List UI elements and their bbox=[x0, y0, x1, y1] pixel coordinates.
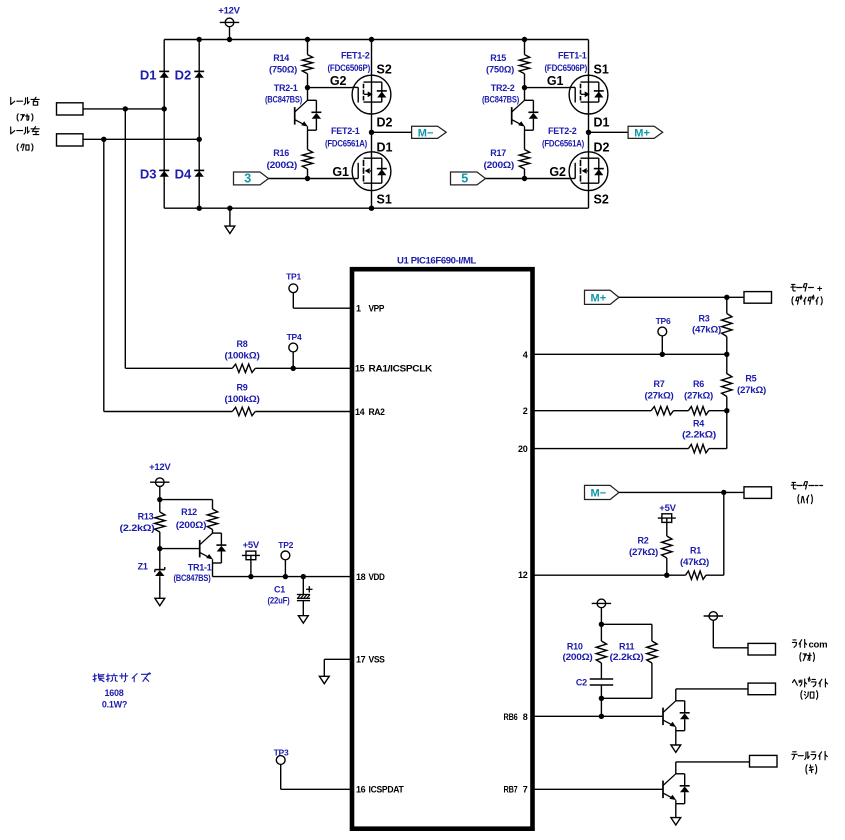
resistor R3 bbox=[692, 297, 732, 357]
svg-text:R11: R11 bbox=[619, 641, 635, 651]
resistor R1 bbox=[533, 546, 724, 580]
wire gate top G1 bbox=[525, 74, 570, 88]
svg-text:(750Ω): (750Ω) bbox=[269, 65, 297, 75]
pin 17 VSS bbox=[356, 655, 385, 665]
test point TP6 bbox=[656, 316, 671, 357]
mosfet FET2-1 bbox=[325, 115, 393, 206]
svg-text:ICSPDAT: ICSPDAT bbox=[369, 785, 405, 795]
svg-text:R6: R6 bbox=[693, 379, 704, 389]
svg-text:G1: G1 bbox=[547, 74, 564, 88]
pin RB6 8 bbox=[504, 712, 528, 722]
label taillight-color bbox=[806, 765, 817, 774]
test point TP4 bbox=[287, 332, 302, 371]
svg-text:RA2: RA2 bbox=[369, 407, 385, 417]
mosfet FET1-2 bbox=[328, 51, 392, 114]
svg-text:D3: D3 bbox=[140, 166, 157, 181]
wire RA2 sense drop bbox=[103, 139, 105, 411]
capacitor C2 bbox=[576, 678, 613, 719]
svg-text:17: 17 bbox=[356, 655, 366, 665]
resistor R16 bbox=[267, 130, 313, 181]
svg-text:7: 7 bbox=[523, 785, 528, 795]
op-amp U1 PIC16F690 body bbox=[352, 269, 533, 829]
svg-text:D1: D1 bbox=[594, 115, 610, 129]
input tag 5 bbox=[451, 172, 486, 186]
wire M- drop bbox=[723, 492, 725, 575]
wire FET column bbox=[586, 40, 591, 209]
mosfet FET2-2 bbox=[542, 115, 610, 206]
power +5V right bbox=[658, 503, 677, 536]
mosfet FET1-1 bbox=[545, 51, 609, 114]
test point TP3 bbox=[274, 748, 352, 790]
svg-text:(100kΩ): (100kΩ) bbox=[225, 394, 260, 404]
svg-text:S2: S2 bbox=[377, 62, 392, 76]
connector motor-plus bbox=[744, 292, 772, 304]
svg-text:4: 4 bbox=[523, 350, 528, 360]
svg-text:D1: D1 bbox=[377, 141, 393, 155]
pin RB7 7 bbox=[504, 785, 528, 795]
wire +12V top rail bbox=[164, 39, 588, 41]
svg-text:(47kΩ): (47kΩ) bbox=[680, 557, 709, 567]
label motor-minus-color bbox=[798, 495, 812, 504]
resistor R9 bbox=[104, 382, 352, 415]
svg-text:15: 15 bbox=[355, 364, 365, 374]
pin 4 bbox=[523, 350, 528, 360]
svg-text:(750Ω): (750Ω) bbox=[486, 65, 514, 75]
resistor R6 bbox=[684, 379, 727, 415]
svg-text:R12: R12 bbox=[181, 507, 197, 517]
label light-com bbox=[792, 639, 827, 650]
svg-text:R15: R15 bbox=[490, 53, 506, 63]
test point TP2 bbox=[278, 540, 293, 579]
svg-text:R17: R17 bbox=[490, 148, 506, 158]
connector light-com bbox=[748, 643, 776, 655]
svg-text:TR2-1: TR2-1 bbox=[274, 83, 298, 93]
svg-text:D2: D2 bbox=[175, 67, 192, 82]
svg-text:(27kΩ): (27kΩ) bbox=[737, 385, 766, 395]
resistor R5 bbox=[722, 354, 767, 413]
pin 15 RA1 bbox=[355, 364, 433, 374]
power +5V left bbox=[242, 540, 260, 579]
svg-text:G2: G2 bbox=[549, 165, 566, 179]
wire bridge bottom rail bbox=[164, 207, 588, 209]
svg-text:(FDC6506P): (FDC6506P) bbox=[545, 63, 588, 73]
resistor R7 bbox=[533, 379, 689, 415]
net tag M+ out bbox=[585, 290, 745, 304]
net tag M- out bbox=[585, 485, 745, 499]
svg-text:D1: D1 bbox=[140, 67, 157, 82]
svg-text:(200Ω): (200Ω) bbox=[563, 652, 593, 662]
svg-text:RB6: RB6 bbox=[504, 712, 518, 722]
svg-text:FET1-2: FET1-2 bbox=[341, 51, 370, 61]
svg-text:(27kΩ): (27kΩ) bbox=[645, 390, 674, 400]
wire FET column bbox=[369, 37, 374, 211]
svg-text:(FDC6561A): (FDC6561A) bbox=[325, 138, 367, 148]
net tag M- bridge bbox=[372, 126, 447, 139]
svg-text:VPP: VPP bbox=[369, 304, 385, 314]
pin 12 bbox=[518, 570, 528, 580]
svg-text:R13: R13 bbox=[138, 512, 154, 522]
pin 18 VDD bbox=[356, 572, 385, 582]
svg-text:R8: R8 bbox=[236, 339, 247, 349]
svg-text:0.1W?: 0.1W? bbox=[102, 700, 127, 710]
diode D1 bbox=[140, 67, 169, 82]
wire pin4 row bbox=[533, 353, 727, 355]
svg-text:R5: R5 bbox=[745, 374, 756, 384]
transistor Q1 headlight bbox=[663, 689, 748, 753]
svg-text:+12V: +12V bbox=[149, 462, 171, 473]
label U1 bbox=[397, 255, 477, 265]
svg-text:C1: C1 bbox=[274, 584, 285, 594]
svg-text:+: + bbox=[817, 284, 823, 295]
power +12V bbox=[218, 5, 240, 42]
svg-text:TR1-1: TR1-1 bbox=[188, 563, 212, 573]
resistor R17 bbox=[484, 130, 530, 181]
svg-text:TP3: TP3 bbox=[274, 748, 289, 758]
transistor TR2-2 bbox=[482, 83, 538, 130]
svg-text:1608: 1608 bbox=[104, 688, 123, 698]
svg-text:R1: R1 bbox=[690, 546, 701, 556]
connector motor-minus bbox=[744, 487, 772, 499]
svg-text:R4: R4 bbox=[693, 418, 704, 428]
svg-text:M+: M+ bbox=[634, 128, 650, 140]
label motor-plus bbox=[791, 284, 823, 295]
pin 20 bbox=[518, 444, 528, 454]
svg-text:(100kΩ): (100kΩ) bbox=[225, 350, 260, 360]
svg-text:(200Ω): (200Ω) bbox=[176, 520, 207, 530]
wire RB6 row bbox=[533, 715, 663, 717]
wire D1-D3 column bbox=[163, 40, 165, 209]
label rail-right-aka bbox=[17, 114, 33, 121]
resistor R4 bbox=[533, 411, 727, 453]
svg-text:TR2-2: TR2-2 bbox=[491, 83, 515, 93]
svg-text:+5V: +5V bbox=[659, 503, 676, 514]
pin 1 VPP bbox=[356, 304, 384, 314]
wire gate bottom G2 bbox=[486, 165, 570, 179]
diode D4 bbox=[175, 166, 205, 211]
transistor TR1-1 bbox=[160, 533, 227, 583]
svg-text:S1: S1 bbox=[594, 62, 609, 76]
connector taillight bbox=[750, 751, 828, 767]
label rail-right bbox=[11, 97, 40, 105]
svg-text:M−: M− bbox=[418, 128, 434, 140]
resistor R2 bbox=[629, 536, 672, 578]
resistor R14 bbox=[269, 37, 313, 88]
svg-text:D4: D4 bbox=[175, 166, 192, 181]
wire gate bottom G1 bbox=[269, 165, 353, 179]
svg-text:2: 2 bbox=[523, 406, 528, 416]
svg-text:R16: R16 bbox=[273, 148, 289, 158]
svg-text:R7: R7 bbox=[653, 379, 664, 389]
svg-text:G2: G2 bbox=[330, 74, 347, 88]
svg-text:D2: D2 bbox=[377, 115, 393, 129]
svg-text:20: 20 bbox=[518, 444, 528, 454]
svg-text:14: 14 bbox=[355, 407, 365, 417]
net tag M+ bridge bbox=[588, 126, 662, 139]
svg-text:12: 12 bbox=[518, 570, 528, 580]
resistor R8 bbox=[125, 339, 352, 373]
svg-text:FET2-1: FET2-1 bbox=[331, 126, 360, 136]
svg-text:TP4: TP4 bbox=[287, 332, 302, 342]
svg-text:R2: R2 bbox=[637, 536, 648, 546]
wire RB7 row bbox=[533, 788, 663, 790]
wire RA1 sense drop bbox=[124, 109, 126, 368]
svg-text:(2.2kΩ): (2.2kΩ) bbox=[682, 430, 716, 440]
wire gate top G2 bbox=[308, 74, 353, 88]
diode D3 bbox=[140, 166, 169, 181]
transistor TR2-1 bbox=[265, 83, 321, 130]
svg-text:(200Ω): (200Ω) bbox=[267, 160, 298, 170]
svg-text:VSS: VSS bbox=[369, 655, 385, 665]
svg-text:R10: R10 bbox=[567, 641, 583, 651]
svg-text:U1 PIC16F690-I/ML: U1 PIC16F690-I/ML bbox=[397, 255, 477, 265]
svg-text:RB7: RB7 bbox=[504, 785, 518, 795]
svg-text:(BC847BS): (BC847BS) bbox=[482, 95, 519, 105]
svg-text:(2.2kΩ): (2.2kΩ) bbox=[610, 652, 644, 662]
svg-text:+12V: +12V bbox=[218, 5, 240, 16]
wire rail-right to D1 bbox=[83, 106, 167, 111]
svg-text:TP2: TP2 bbox=[278, 540, 293, 550]
test point TP1 bbox=[286, 272, 352, 309]
resistor R15 bbox=[486, 37, 530, 88]
svg-text:(2.2kΩ): (2.2kΩ) bbox=[120, 523, 155, 533]
wire VDD rail bbox=[213, 563, 353, 577]
input tag 3 bbox=[234, 172, 269, 186]
label motor-plus-color bbox=[792, 295, 822, 305]
svg-text:(200Ω): (200Ω) bbox=[484, 160, 515, 170]
svg-text:Z1: Z1 bbox=[138, 561, 148, 571]
svg-text:16: 16 bbox=[356, 785, 366, 795]
wire R12 top bbox=[160, 500, 213, 509]
pin 14 RA2 bbox=[355, 407, 385, 417]
wire R11 top bbox=[601, 624, 652, 641]
svg-text:VDD: VDD bbox=[369, 572, 386, 582]
ground VSS pin17 bbox=[319, 659, 352, 683]
svg-text:M+: M+ bbox=[591, 293, 607, 305]
diode D2 bbox=[175, 37, 205, 83]
svg-text:S1: S1 bbox=[377, 192, 392, 206]
svg-text:8: 8 bbox=[523, 712, 528, 722]
label rail-left-kuro bbox=[17, 144, 33, 151]
resistor R13 bbox=[120, 500, 166, 552]
resistor R11 bbox=[601, 641, 657, 698]
svg-text:1: 1 bbox=[356, 304, 361, 314]
resistor R12 bbox=[176, 507, 218, 533]
svg-text:(47kΩ): (47kΩ) bbox=[692, 324, 721, 334]
svg-text:RA1/ICSPCLK: RA1/ICSPCLK bbox=[369, 364, 433, 374]
label headlight bbox=[793, 677, 828, 687]
svg-text:(27kΩ): (27kΩ) bbox=[629, 547, 658, 557]
connector headlight bbox=[748, 683, 776, 695]
wire D2-D4 column bbox=[198, 40, 200, 209]
svg-text:R9: R9 bbox=[236, 382, 247, 392]
ground bridge bbox=[225, 206, 235, 234]
svg-text:G1: G1 bbox=[332, 165, 349, 179]
svg-text:FET2-2: FET2-2 bbox=[548, 126, 577, 136]
svg-text:TP1: TP1 bbox=[286, 272, 301, 282]
power flag light-com bbox=[704, 612, 748, 648]
connector rail-left bbox=[57, 134, 84, 146]
svg-text:M−: M− bbox=[591, 488, 607, 500]
svg-text:(22uF): (22uF) bbox=[268, 595, 290, 605]
svg-text:S2: S2 bbox=[594, 192, 609, 206]
svg-text:FET1-1: FET1-1 bbox=[558, 51, 587, 61]
label motor-minus bbox=[791, 482, 822, 489]
pin 16 ICSPDAT bbox=[356, 785, 404, 795]
wire rail-left to D2 bbox=[83, 137, 202, 142]
svg-text:(FDC6506P): (FDC6506P) bbox=[328, 63, 371, 73]
svg-text:(BC847BS): (BC847BS) bbox=[174, 573, 211, 583]
power flag lights bbox=[592, 599, 611, 627]
note resistor size bbox=[93, 673, 150, 710]
svg-text:TP6: TP6 bbox=[656, 316, 671, 326]
svg-text:com: com bbox=[809, 640, 828, 651]
svg-text:R14: R14 bbox=[273, 53, 289, 63]
svg-text:(BC847BS): (BC847BS) bbox=[265, 95, 302, 105]
svg-text:R3: R3 bbox=[698, 313, 709, 323]
svg-text:5: 5 bbox=[461, 172, 468, 186]
pin 2 bbox=[523, 406, 528, 416]
power +12V mid bbox=[149, 462, 171, 502]
zener Z1 bbox=[138, 549, 165, 606]
label rail-left bbox=[11, 127, 40, 135]
svg-text:C2: C2 bbox=[576, 678, 587, 688]
label headlight-color bbox=[801, 691, 818, 700]
svg-text:3: 3 bbox=[244, 172, 251, 186]
label light-com-color bbox=[800, 653, 814, 662]
capacitor C1 bbox=[268, 574, 313, 623]
svg-text:(FDC6561A): (FDC6561A) bbox=[542, 138, 584, 148]
svg-text:D2: D2 bbox=[594, 141, 610, 155]
svg-text:18: 18 bbox=[356, 572, 366, 582]
transistor Q2 taillight bbox=[663, 762, 750, 825]
connector rail-right bbox=[57, 103, 84, 115]
svg-text:(27kΩ): (27kΩ) bbox=[684, 390, 713, 400]
resistor R10 bbox=[563, 624, 607, 679]
svg-text:+5V: +5V bbox=[243, 540, 260, 551]
